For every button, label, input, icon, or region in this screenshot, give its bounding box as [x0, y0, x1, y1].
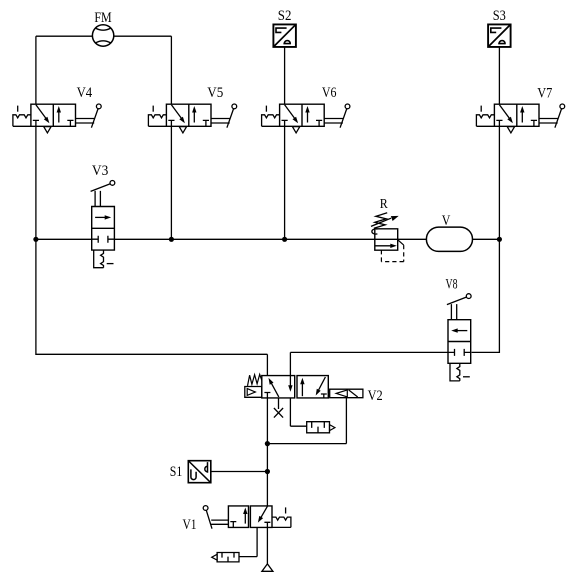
valve V4 left box blocked port T — [33, 120, 39, 126]
valve V2 left box diagonal flow arrow (up-left) — [271, 382, 279, 397]
wire: regulator R to reservoir V — [398, 238, 427, 240]
svg-text:V3: V3 — [92, 163, 108, 179]
valve V2 body (two position boxes) — [262, 376, 329, 398]
valve V1 left box blocked port T — [230, 522, 236, 528]
wire: V7 bottom port to main manifold — [498, 126, 500, 239]
valve V3 body (2/2-way vertical, two position boxes) — [92, 207, 115, 251]
valve V4 body (3/2-way, two position boxes) — [31, 104, 76, 126]
svg-text:V7: V7 — [537, 86, 552, 102]
valve V4 manual lever with knob — [76, 109, 99, 128]
valve V8 top box flow arrow — [456, 330, 467, 332]
wire: V1 exhaust line down — [266, 527, 268, 564]
svg-text:V8: V8 — [446, 276, 458, 292]
valve V4 right box flow arrow (up) — [58, 110, 60, 122]
valve V8 manual lever with knob — [447, 297, 466, 320]
valve V2 left box blocked port T — [264, 393, 270, 398]
signal converter S2 (square with diagonal) — [273, 24, 296, 47]
valve V1 body (3/2-way, two position boxes) — [228, 506, 272, 528]
S3 pneumatic dome mark — [498, 41, 506, 44]
wire: FM to V5 drop corner — [114, 35, 172, 37]
regulator R pilot line (dashed loop) — [398, 240, 404, 245]
regulator R internal flow path — [375, 239, 398, 246]
regulator R vent curl — [372, 229, 378, 234]
wire: S1 to junction — [211, 471, 268, 473]
valve V7 manual lever with knob — [539, 109, 562, 128]
junction dot: V2 supply / pilot branch — [265, 441, 270, 446]
S3 electric flag mark — [491, 28, 502, 32]
wire: right riser down to V8 right port — [472, 239, 500, 352]
valve V2 left box downward flow arrow — [289, 376, 291, 387]
valve V4 exhaust triangle — [44, 127, 51, 133]
valve V6 exhaust triangle — [292, 127, 299, 133]
signal converter S3 (square with diagonal) — [488, 24, 511, 47]
valve V7 body (3/2-way, two position boxes) — [494, 104, 539, 126]
svg-text:S1: S1 — [170, 464, 183, 480]
valve V2 left pilot box with triangle — [245, 387, 262, 398]
valve V6 right box blocked port T — [316, 120, 322, 126]
junction dot: manifold / right riser — [497, 237, 502, 242]
valve V3 bottom box blocked ports — [92, 236, 115, 243]
wire: drop into V5 top port — [170, 36, 172, 104]
wire: S2 to V6 top port — [284, 47, 286, 104]
wire: main manifold line left of V3 — [36, 238, 92, 240]
valve V3 manual lever with knob — [91, 184, 110, 207]
svg-text:S2: S2 — [278, 8, 292, 24]
valve V7 right box flow arrow (up) — [521, 110, 523, 122]
S1 electric flag mark (U) — [191, 469, 196, 479]
S2 pneumatic dome mark — [283, 41, 291, 44]
valve V6 left box flow path (arrow to exhaust) — [285, 105, 297, 121]
exhaust triangle below V1 — [262, 564, 273, 571]
valve V5 body (3/2-way, two position boxes) — [166, 104, 211, 126]
regulator R adjustment arrow — [371, 218, 391, 226]
valve V7 left box blocked port T — [496, 120, 502, 126]
pressure regulator R body — [375, 229, 398, 250]
svg-text:S3: S3 — [493, 8, 506, 24]
valve V5 exhaust triangle — [179, 127, 186, 133]
throttle unit left of V1 (rect with ticks and outlet triangle) — [217, 553, 239, 562]
valve V1 right box diagonal flow arrow (down-left) — [261, 506, 268, 518]
valve V5 right box blocked port T — [203, 120, 209, 126]
valve V7 right box blocked port T — [531, 120, 537, 126]
S2 electric flag mark — [276, 28, 287, 32]
valve V7 detent (notched catch with pin) — [476, 115, 494, 127]
valve V6 detent (notched catch with pin) — [262, 115, 280, 127]
valve V8 detent (notched catch with pin) — [450, 363, 460, 381]
valve V7 left box flow path (arrow to exhaust) — [499, 105, 511, 121]
wire: V4 bottom port to main manifold — [35, 126, 37, 239]
valve V6 manual lever with knob — [324, 109, 347, 128]
valve V2 right box diagonal flow arrow (down-left) — [318, 377, 326, 392]
valve V4 right box blocked port T — [67, 120, 73, 126]
wire: left riser down from manifold — [36, 239, 268, 354]
valve V6 right box flow arrow (up) — [307, 110, 309, 122]
wire: V6 bottom port to main manifold — [284, 126, 286, 239]
valve V2 blocked branch X mark — [274, 398, 283, 418]
svg-text:V5: V5 — [207, 85, 223, 101]
junction dot: S1 branch — [265, 469, 270, 474]
throttle unit below V2 (rect with ticks and outlet triangle) — [307, 422, 330, 433]
svg-text:V4: V4 — [77, 85, 93, 101]
valve V2 right box flow arrow (up) — [301, 382, 303, 396]
svg-text:FM: FM — [94, 10, 111, 26]
valve V1 right box blocked port T — [264, 522, 270, 527]
valve V5 left box flow path (arrow to exhaust) — [171, 105, 183, 121]
valve V5 detent (notched catch with pin) — [148, 115, 166, 127]
valve V1 detent (notched catch with pin) — [272, 517, 291, 527]
valve V7 exhaust triangle — [507, 127, 514, 133]
wire: V2 bottom port down to V1 top port — [266, 398, 268, 506]
wire: drop into V4 top port — [35, 36, 37, 104]
wire: S3 to V7 top port — [498, 47, 500, 104]
wire: reservoir V to right riser — [473, 238, 500, 240]
air reservoir V (stadium vessel) — [426, 227, 472, 251]
valve V1 left box flow arrow (up) — [244, 512, 246, 523]
valve V5 right box flow arrow (up) — [193, 110, 195, 122]
svg-text:V: V — [442, 213, 451, 229]
valve V8 bottom box blocked ports — [448, 349, 471, 356]
svg-text:V2: V2 — [368, 388, 383, 404]
valve V5 left box blocked port T — [168, 120, 174, 126]
wire: V5 bottom port to main manifold — [170, 126, 172, 239]
wire: supply header from V4 to FM — [36, 35, 93, 37]
junction dot: manifold / V4 riser — [33, 237, 38, 242]
valve V5 manual lever with knob — [211, 109, 234, 128]
wire: main manifold line V3 to regulator R — [114, 238, 374, 240]
valve V1 manual lever with knob — [206, 510, 228, 528]
svg-text:R: R — [380, 196, 389, 211]
valve V3 detent (notched catch with pin) — [94, 250, 104, 268]
junction dot: manifold / V6 riser — [282, 237, 287, 242]
signal converter S1 (square with diagonal) — [188, 461, 211, 483]
valve V6 left box blocked port T — [282, 120, 288, 126]
wire: into V2 left box top port — [266, 354, 268, 375]
valve V2 return spring — [248, 374, 262, 386]
wire: V1 pilot branch to throttle unit — [239, 527, 257, 556]
S1 pneumatic dome mark — [205, 462, 208, 473]
svg-text:V6: V6 — [322, 85, 337, 101]
valve V6 body (3/2-way, two position boxes) — [280, 104, 325, 126]
valve V3 top box flow arrow — [95, 216, 106, 218]
valve V2 right box blocked port T — [321, 394, 327, 398]
svg-text:V1: V1 — [182, 517, 196, 533]
valve V4 detent (notched catch with pin) — [13, 115, 31, 127]
valve V2 right pilot box with triangle and spring stroke — [330, 389, 363, 398]
regulator R adjustment spring — [374, 213, 387, 229]
junction dot: manifold / V5 riser — [169, 237, 174, 242]
wire: pilot line from junction to V2 right pilot — [267, 398, 346, 444]
flow meter FM (circle with measuring arcs) — [92, 25, 113, 46]
wire: V2 branch to throttle unit — [290, 398, 306, 426]
valve V8 body (2/2-way vertical, two position boxes) — [448, 320, 471, 364]
wire: V8 left port to V2 supply drop — [290, 352, 448, 375]
valve V4 left box flow path (arrow to exhaust) — [36, 105, 48, 121]
